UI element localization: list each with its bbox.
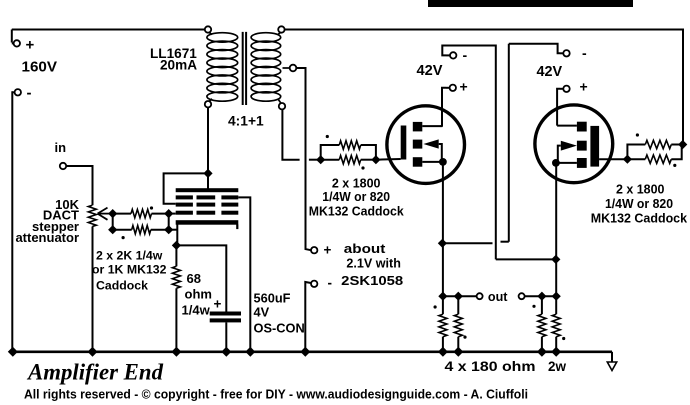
- label 20mA: [160, 57, 197, 72]
- svg-text:about: about: [344, 241, 386, 256]
- dot marker 2K upper: [150, 206, 153, 209]
- transistor Q1 gate bar: [401, 126, 407, 160]
- wire ground bus: [12, 350, 612, 353]
- svg-text:+: +: [460, 79, 468, 95]
- label in: [55, 140, 67, 155]
- dot marker 180 left-pair: [434, 305, 437, 308]
- svg-text:4 x 180 ohm: 4 x 180 ohm: [445, 359, 536, 374]
- label DACT: [43, 208, 79, 223]
- terminal 42V-right minus: [560, 50, 570, 56]
- svg-text:2 x 1800: 2 x 1800: [616, 182, 665, 197]
- transistor Q1 body circle: [387, 106, 465, 184]
- wire Q2 source node to out rail: [555, 259, 557, 296]
- resistor R2 2K lower: [113, 226, 169, 234]
- transistor Q2 gate bar: [590, 126, 599, 167]
- svg-text:or 1K MK132: or 1K MK132: [92, 263, 167, 277]
- svg-text:1/4W or 820: 1/4W or 820: [322, 189, 390, 204]
- terminal 42V-left minus: [446, 52, 456, 58]
- bias stack plate top: [176, 188, 239, 192]
- label about: [344, 241, 386, 256]
- wire stack bottom-plate left drop: [176, 225, 178, 246]
- transistor Q2 substrate arrow: [558, 141, 577, 163]
- label 10K: [55, 197, 79, 212]
- junction bus R10: [537, 347, 547, 357]
- wire 42V-right plus to Q2 drain: [557, 89, 560, 126]
- label 2.1V with: [346, 256, 401, 271]
- terminal 42V-left plus: [446, 85, 456, 91]
- label 42V-right plus: [580, 79, 588, 95]
- wire junction to stack top plate: [207, 173, 209, 188]
- junction out-rail R8: [454, 292, 463, 301]
- label cap plus: [214, 297, 222, 312]
- resistor R8 180 ohm: [439, 296, 447, 352]
- dot marker 1800R lower: [673, 164, 676, 167]
- label MK132 Caddock left: [309, 204, 405, 219]
- resistor R7 1800 lower right: [627, 145, 681, 164]
- svg-text:ohm: ohm: [185, 287, 212, 302]
- resistor R5 1800 lower left: [321, 156, 376, 164]
- junction 2K right lower: [164, 225, 173, 234]
- wire Q2 gate lead: [599, 158, 627, 160]
- resistor R6 1800 upper right: [627, 140, 682, 159]
- wire bias minus to bus: [305, 282, 311, 352]
- svg-text:OS-CON: OS-CON: [254, 321, 305, 336]
- dot marker 1800L lower: [361, 166, 364, 169]
- copyright line: [24, 388, 528, 402]
- junction wiper node lower: [108, 225, 117, 234]
- junction bus bias minus: [300, 347, 310, 357]
- wire Q1 drain up: [441, 88, 443, 127]
- label 2SK1058: [341, 273, 403, 288]
- terminal 160V minus: [12, 89, 21, 95]
- transistor Q1 source lead: [422, 158, 447, 166]
- svg-text:4:1+1: 4:1+1: [228, 114, 264, 129]
- transformer T1 core: [243, 32, 246, 105]
- junction right-gate right node: [678, 140, 687, 149]
- junction bus stack right: [245, 347, 255, 357]
- wire to Q1 gate: [376, 158, 401, 161]
- dot marker 2K lower: [122, 236, 125, 239]
- junction stack-bottom node: [172, 241, 181, 250]
- wire hop hook to right supply minus: [501, 241, 509, 243]
- wire Q2 source down: [555, 163, 557, 260]
- resistor R3 68 ohm: [172, 245, 180, 351]
- label bias plus: [324, 243, 332, 258]
- transistor Q2 source lead: [552, 159, 577, 167]
- title Amplifier End: [26, 360, 164, 386]
- label 1/4w: [182, 303, 211, 318]
- wire 160V minus to ground bus: [11, 91, 13, 352]
- svg-text:560uF: 560uF: [254, 291, 291, 306]
- transistor Q1 drain lead: [422, 125, 442, 127]
- wire top rail left (plus to transformer primary): [12, 29, 205, 31]
- wire Q1 source node to out rail: [442, 243, 444, 296]
- label out: [488, 290, 508, 304]
- svg-text:2w: 2w: [548, 359, 567, 374]
- transformer T1 primary terminal top: [205, 26, 212, 34]
- svg-text:+: +: [26, 37, 35, 54]
- wire stack row2 right to bus vertical: [238, 197, 250, 351]
- terminal out left: [477, 293, 483, 299]
- label 42V-left plus: [460, 79, 468, 95]
- terminal 42V-right plus: [560, 86, 570, 92]
- label 1/4W or 820 left: [322, 189, 390, 204]
- svg-text:All rights reserved - © copyri: All rights reserved - © copyright - free…: [24, 388, 528, 402]
- junction gate left node: [316, 155, 325, 164]
- label 160V: [22, 59, 58, 76]
- label 4 x 180 ohm: [445, 359, 536, 374]
- svg-text:+: +: [214, 297, 222, 312]
- wire wiper node vertical: [112, 214, 114, 230]
- capacitor C1 560uF: [210, 312, 241, 323]
- wire 2K right vertical: [168, 214, 170, 230]
- label 42V right: [537, 64, 563, 80]
- transformer T1 primary winding: [207, 33, 238, 102]
- label 4:1+1 ratio: [228, 114, 264, 129]
- svg-text:attenuator: attenuator: [15, 230, 79, 245]
- label plus 160V: [26, 37, 35, 54]
- junction wiper node upper: [108, 209, 117, 218]
- wire out rail left: [443, 295, 477, 297]
- wire 42V-left minus to cross rail: [442, 46, 496, 260]
- label bias minus: [328, 276, 333, 291]
- wire junction to stack row3 (left bracket): [164, 173, 208, 203]
- transformer T1 secondary winding: [251, 33, 281, 102]
- label LL1671: [150, 46, 197, 61]
- junction bus R8: [438, 347, 448, 357]
- transistor Q2 drain lead: [557, 125, 577, 127]
- svg-text:Amplifier End: Amplifier End: [26, 360, 164, 386]
- junction Q1 source node: [438, 239, 447, 248]
- wire attenuator bottom to bus: [92, 227, 94, 352]
- terminal 160V plus: [12, 30, 20, 47]
- wire gate line after hop: [309, 159, 321, 161]
- junction 2K right upper: [164, 209, 173, 218]
- ground symbol: [607, 352, 616, 371]
- wire primary bottom down: [207, 107, 209, 173]
- svg-text:2SK1058: 2SK1058: [341, 273, 403, 288]
- resistor R4 1800 upper left: [321, 141, 376, 160]
- transistor Q2 channel squares: [577, 122, 587, 168]
- wire input to attenuator: [66, 166, 92, 205]
- junction out-rail Q2: [552, 292, 561, 301]
- bias stack dashed row 3: [176, 203, 239, 207]
- resistor R9 180 ohm: [454, 296, 462, 352]
- svg-text:1/4W or 820: 1/4W or 820: [605, 196, 673, 211]
- svg-text:1/4w: 1/4w: [182, 303, 211, 318]
- wire mid-tap down to bias plus: [296, 68, 311, 250]
- dot marker 180 left-pair lower: [463, 336, 466, 339]
- label minus 160V: [27, 85, 32, 102]
- wire secondary bottom to gate line: [282, 109, 299, 159]
- label OS-CON: [254, 321, 305, 336]
- cropped title bar remnant: [428, 0, 633, 7]
- svg-text:68: 68: [187, 271, 201, 286]
- transformer T1 secondary terminal top: [278, 26, 285, 34]
- junction gate right node: [371, 155, 380, 164]
- wire node to capacitor: [176, 245, 226, 311]
- label 2 x 2K 1/4w: [96, 249, 163, 263]
- junction out-rail R10: [537, 292, 546, 301]
- label Caddock left: [96, 279, 148, 293]
- terminal out right: [519, 293, 525, 299]
- svg-text:in: in: [55, 140, 67, 155]
- junction bus R11: [551, 347, 561, 357]
- bias stack dashed row 2: [176, 195, 239, 199]
- terminal input: [60, 163, 66, 169]
- label ohm: [185, 287, 212, 302]
- svg-text:-: -: [463, 47, 468, 63]
- resistor R1 2K upper: [113, 209, 169, 217]
- wire right rail down: [682, 29, 684, 145]
- transformer T1 secondary terminal bottom: [278, 99, 285, 110]
- label 1/4W or 820 right: [605, 196, 673, 211]
- junction bus attenuator: [88, 347, 98, 357]
- svg-text:+: +: [580, 79, 588, 95]
- wire Q1 source down: [442, 162, 444, 243]
- label 4V: [254, 305, 270, 320]
- transistor Q2 body circle: [535, 105, 613, 183]
- junction bus 160V minus: [8, 347, 18, 357]
- svg-text:42V: 42V: [537, 64, 563, 80]
- terminal bias plus: [311, 247, 317, 253]
- svg-text:Caddock: Caddock: [96, 279, 148, 293]
- svg-text:-: -: [582, 45, 587, 61]
- label MK132 Caddock right: [591, 210, 688, 225]
- svg-text:42V: 42V: [417, 63, 443, 79]
- dot marker 1800L upper: [326, 135, 329, 138]
- wire capacitor to bus: [225, 322, 227, 351]
- wire right supply minus vertical: [508, 44, 510, 242]
- label or 1K MK132: [92, 263, 167, 277]
- wire left supply minus to Q2 source: [496, 258, 556, 260]
- svg-text:4V: 4V: [254, 305, 270, 320]
- label attenuator: [15, 230, 79, 245]
- transformer T1 primary terminal bottom: [205, 99, 212, 108]
- junction primary-bottom node: [203, 169, 212, 178]
- svg-text:20mA: 20mA: [160, 57, 197, 72]
- wire top rail right (secondary top to right rail): [285, 29, 683, 31]
- junction bus capacitor: [221, 347, 231, 357]
- transistor Q1 channel squares: [413, 122, 423, 167]
- svg-text:2.1V with: 2.1V with: [346, 256, 401, 271]
- dot marker 180 right-pair lower: [562, 337, 565, 340]
- label 560uF: [254, 291, 291, 306]
- junction out-rail Q1: [438, 292, 447, 301]
- terminal bias minus: [311, 281, 317, 287]
- junction bus 68 ohm: [171, 347, 181, 357]
- wire 42V-left plus to Q1 drain: [442, 88, 446, 126]
- bias stack plate bottom: [176, 220, 239, 229]
- svg-text:160V: 160V: [22, 59, 58, 76]
- junction right-gate left node: [623, 155, 632, 164]
- transformer T1 secondary mid tap terminal: [283, 65, 297, 72]
- resistor R11 180 ohm: [552, 296, 560, 352]
- wire Q1-source toward right supply minus (hop): [442, 242, 492, 244]
- label 2w: [548, 359, 567, 374]
- wire out rail right: [525, 295, 557, 297]
- svg-text:-: -: [27, 85, 32, 102]
- svg-text:+: +: [324, 243, 332, 258]
- transistor Q1 substrate arrow: [423, 139, 441, 162]
- label 2 x 1800 left: [332, 176, 381, 191]
- dot marker 1800R upper: [636, 133, 639, 136]
- label 68: [187, 271, 201, 286]
- dot marker 180 right-pair: [532, 305, 535, 308]
- wire 2K upper to stack row4: [169, 213, 176, 215]
- svg-text:out: out: [488, 290, 508, 304]
- svg-text:MK132 Caddock: MK132 Caddock: [591, 210, 688, 225]
- wire 2K lower to stack drop: [169, 229, 178, 231]
- svg-text:2 x 2K 1/4w: 2 x 2K 1/4w: [96, 249, 163, 263]
- resistor R10 180 ohm: [538, 296, 546, 352]
- potentiometer 10K DACT: [88, 205, 112, 226]
- label 42V-left minus: [463, 47, 468, 63]
- svg-text:-: -: [328, 276, 333, 291]
- label stepper: [32, 219, 79, 234]
- bias stack dashed row 4: [176, 211, 239, 215]
- label 42V left: [417, 63, 443, 79]
- label 42V-right minus: [582, 45, 587, 61]
- junction bus R9: [453, 347, 463, 357]
- label 2 x 1800 right: [616, 182, 665, 197]
- junction Q2 source node: [551, 255, 560, 264]
- wire 42V-right minus to cross rail: [509, 44, 560, 54]
- svg-text:MK132 Caddock: MK132 Caddock: [309, 204, 405, 219]
